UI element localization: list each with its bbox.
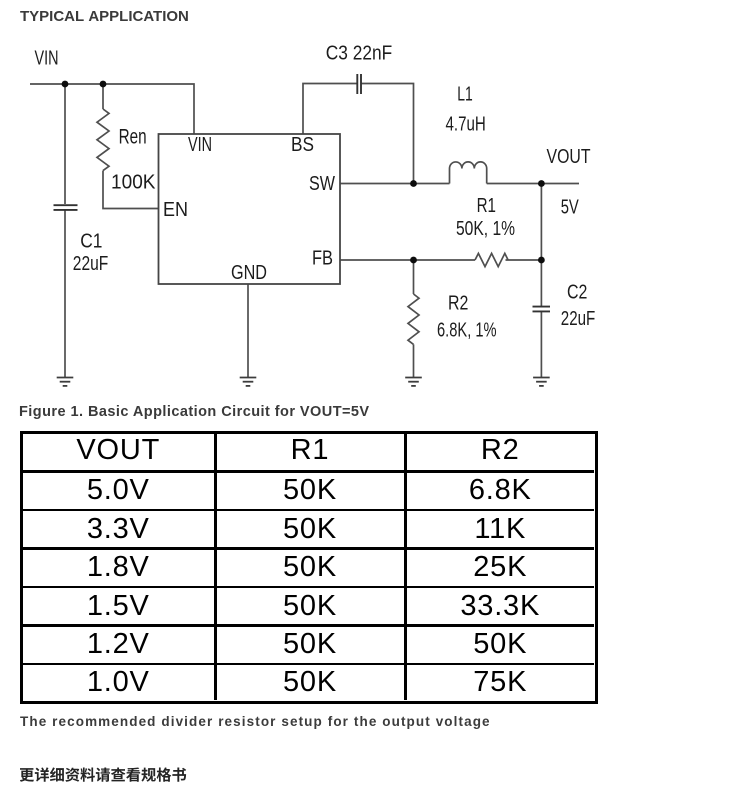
wire VOUT node to C2	[540, 184, 542, 307]
node BS-SW junction	[410, 180, 417, 187]
svg-text:EN: EN	[163, 198, 188, 221]
wire FB pin	[340, 259, 475, 261]
table row line 5	[23, 624, 594, 627]
wire R1 to VOUT node	[506, 259, 542, 261]
heading TYPICAL APPLICATION	[20, 9, 189, 25]
ground under R2	[405, 378, 422, 386]
node VOUT junction	[538, 180, 545, 187]
table row line 2	[23, 509, 594, 512]
ground under C1	[57, 378, 74, 386]
capacitor C1 plates	[54, 205, 78, 210]
svg-text:VIN: VIN	[35, 47, 59, 70]
resistor Ren	[97, 109, 109, 171]
node VIN-C1 junction	[62, 81, 69, 88]
capacitor C2 plates	[533, 307, 551, 312]
note recommended divider text	[20, 713, 491, 730]
table row line 1	[23, 470, 594, 473]
note Chinese see datasheet	[20, 765, 200, 787]
svg-text:C1: C1	[80, 230, 102, 253]
svg-text:L1: L1	[457, 83, 473, 106]
svg-text:Ren: Ren	[119, 126, 147, 149]
svg-text:5V: 5V	[561, 195, 579, 218]
svg-text:VOUT: VOUT	[547, 145, 591, 168]
ground under GND pin	[240, 378, 257, 386]
svg-text:100K: 100K	[111, 171, 156, 194]
wire Ren to EN pin	[103, 171, 159, 209]
svg-text:FB: FB	[312, 247, 333, 270]
node R1-C2 junction	[538, 257, 545, 264]
wire C3 to SW node	[362, 84, 414, 184]
wire L1 to VOUT	[487, 183, 579, 185]
wire C1 to ground	[64, 211, 66, 378]
svg-text:R2: R2	[448, 292, 468, 315]
inductor L1	[450, 162, 487, 184]
ground under C2	[533, 378, 550, 386]
svg-text:6.8K, 1%: 6.8K, 1%	[437, 319, 497, 342]
svg-text:22uF: 22uF	[73, 252, 109, 275]
wire GND pin to ground	[247, 284, 249, 377]
wire C2 to ground	[540, 312, 542, 377]
resistor R1	[475, 253, 508, 266]
capacitor C3 plates	[357, 74, 361, 94]
table column divider 1	[214, 434, 217, 701]
wire BS pin to C3	[303, 84, 357, 135]
svg-text:4.7uH: 4.7uH	[446, 113, 486, 136]
svg-text:R1: R1	[477, 194, 496, 217]
table column divider 2	[404, 434, 407, 701]
wire FB node to R2	[413, 260, 415, 294]
svg-text:C2: C2	[567, 281, 587, 304]
svg-text:50K, 1%: 50K, 1%	[456, 217, 515, 240]
caption Figure 1	[19, 403, 370, 421]
svg-text:C3 22nF: C3 22nF	[326, 41, 392, 64]
table row line 4	[23, 586, 594, 589]
resistor R2	[408, 294, 419, 344]
wire R2 to ground	[413, 344, 415, 377]
wire SW pin output	[340, 183, 450, 185]
IC body U1	[159, 134, 341, 284]
wire Ren branch top	[102, 84, 104, 109]
node VIN-Ren junction	[100, 81, 107, 88]
svg-text:BS: BS	[291, 133, 314, 156]
svg-text:VIN: VIN	[188, 133, 212, 156]
svg-text:SW: SW	[309, 172, 336, 195]
table row line 6	[23, 663, 594, 666]
svg-text:GND: GND	[231, 261, 267, 284]
table cells	[23, 434, 214, 471]
svg-text:22uF: 22uF	[561, 307, 596, 330]
table row line 3	[23, 547, 594, 550]
table frame	[20, 431, 598, 705]
node FB-R2 junction	[410, 257, 417, 264]
wire C1 branch top	[64, 84, 66, 204]
wire VIN top rail	[30, 84, 194, 134]
